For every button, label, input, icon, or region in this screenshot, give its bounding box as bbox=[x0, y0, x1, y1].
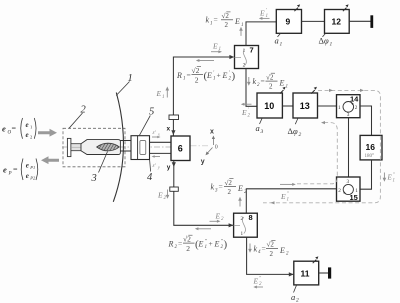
svg-text:x: x bbox=[167, 125, 171, 132]
svg-text:E: E bbox=[237, 184, 243, 193]
polarization splitter box 6 bbox=[171, 136, 190, 161]
svg-text:E: E bbox=[157, 190, 163, 199]
hatched core 3 bbox=[97, 143, 120, 151]
curved wavefront 1 bbox=[113, 93, 123, 202]
svg-text:E: E bbox=[241, 108, 247, 117]
svg-text:e: e bbox=[26, 121, 29, 129]
svg-text:1: 1 bbox=[205, 245, 208, 250]
gray up arrow under k1 bbox=[240, 29, 242, 36]
svg-text:16: 16 bbox=[366, 142, 376, 152]
svg-text:9: 9 bbox=[286, 17, 291, 27]
svg-text:2: 2 bbox=[296, 298, 299, 303]
coupler box 7 bbox=[235, 46, 259, 69]
svg-text:e: e bbox=[26, 131, 29, 139]
svg-text:e: e bbox=[26, 161, 29, 169]
gray left arrow under wire (R2 direction) bbox=[197, 228, 211, 230]
gray down arrow k2 bbox=[248, 77, 250, 84]
phase modulator box 13 bbox=[293, 93, 318, 118]
svg-text:e: e bbox=[2, 124, 6, 134]
svg-text:4: 4 bbox=[147, 172, 153, 183]
beam lines 4 to box 6 bbox=[150, 141, 172, 143]
svg-text:13: 13 bbox=[300, 101, 310, 111]
circulator box 14 bbox=[337, 95, 361, 118]
wire 9 to 12 bbox=[302, 20, 325, 22]
svg-text:√2: √2 bbox=[225, 179, 233, 187]
svg-text:P1: P1 bbox=[29, 165, 35, 170]
svg-text:1: 1 bbox=[213, 77, 216, 82]
svg-text:y: y bbox=[167, 164, 171, 171]
svg-text:1: 1 bbox=[338, 105, 341, 111]
wire 10 to 13 bbox=[282, 105, 293, 107]
wire box7 up to box9 bbox=[246, 22, 276, 46]
svg-text:180°: 180° bbox=[365, 154, 375, 159]
svg-text:=: = bbox=[219, 182, 223, 191]
svg-text:15: 15 bbox=[350, 193, 358, 202]
svg-text:E: E bbox=[156, 89, 162, 98]
wire 14 port3 to 15 port3 bbox=[348, 118, 350, 177]
svg-text:k: k bbox=[206, 16, 210, 25]
coupler box 8 bbox=[234, 213, 258, 237]
svg-text:E: E bbox=[222, 71, 228, 80]
sensing element shaft bbox=[71, 144, 81, 151]
dashed feedback loop (inner) bbox=[297, 123, 337, 184]
gray up arrow k3 bbox=[239, 199, 241, 207]
coordinate axes bbox=[201, 129, 218, 166]
wire 11 to mirror bbox=[319, 272, 328, 274]
label E''1 right edge with down arrow bbox=[383, 173, 385, 180]
svg-text:3: 3 bbox=[91, 173, 97, 184]
formula k4 bbox=[254, 241, 290, 258]
svg-text:2: 2 bbox=[299, 132, 302, 138]
circulator box 15 bbox=[337, 177, 361, 201]
formula e_o vector bbox=[2, 118, 36, 139]
coupler box 10 bbox=[257, 93, 282, 118]
svg-text:e: e bbox=[3, 165, 7, 175]
svg-text:E: E bbox=[253, 276, 259, 285]
svg-text:E: E bbox=[214, 239, 220, 248]
svg-text:10: 10 bbox=[264, 101, 274, 111]
wire 14 port2 to box16 bbox=[360, 106, 372, 135]
svg-text:3: 3 bbox=[260, 129, 264, 135]
formula e_p vector bbox=[3, 159, 38, 181]
svg-text:E: E bbox=[206, 71, 212, 80]
arrow into box7 bbox=[229, 55, 234, 59]
svg-text:=: = bbox=[12, 124, 17, 133]
svg-text:E: E bbox=[280, 192, 286, 201]
formula R2 bbox=[168, 234, 228, 252]
thick gray return arrow bbox=[41, 156, 59, 164]
svg-text:=: = bbox=[187, 70, 191, 79]
svg-text:k: k bbox=[254, 244, 258, 253]
svg-text:a: a bbox=[256, 123, 260, 133]
svg-text:2: 2 bbox=[225, 21, 229, 29]
gray left arrow E''2 bbox=[256, 286, 264, 288]
svg-text:): ) bbox=[232, 70, 236, 82]
arrow into box6 top bbox=[171, 130, 175, 135]
svg-text:√2: √2 bbox=[267, 241, 275, 249]
svg-text:φ: φ bbox=[324, 36, 329, 46]
svg-text:E: E bbox=[198, 239, 204, 248]
svg-text:8: 8 bbox=[249, 213, 253, 222]
svg-text:=: = bbox=[178, 239, 182, 248]
svg-text:φ: φ bbox=[293, 126, 298, 136]
svg-text:2: 2 bbox=[228, 188, 232, 196]
gray right arrow under E2 bbox=[210, 220, 219, 222]
svg-text:E: E bbox=[234, 17, 240, 26]
pointer to modulator 4 bbox=[150, 160, 151, 172]
svg-text:a: a bbox=[291, 292, 295, 302]
svg-text:E: E bbox=[259, 8, 265, 17]
svg-text:=: = bbox=[261, 77, 265, 86]
svg-text:=: = bbox=[214, 15, 218, 24]
svg-text:7: 7 bbox=[250, 45, 254, 54]
svg-text:1: 1 bbox=[287, 198, 290, 203]
svg-text:12: 12 bbox=[332, 17, 342, 27]
svg-text:x: x bbox=[157, 131, 160, 136]
amplitude modulator box 11 bbox=[294, 261, 319, 285]
wire box6 bottom down to box8 bbox=[174, 161, 233, 226]
gray arrow start of inner loop bbox=[280, 183, 294, 185]
svg-text:k: k bbox=[253, 77, 257, 86]
optical axis right segment bbox=[191, 145, 209, 147]
pointer to core 3 bbox=[99, 152, 108, 173]
arrow into box11 bbox=[289, 272, 294, 276]
thick gray input arrow bbox=[38, 129, 57, 137]
svg-text:1: 1 bbox=[286, 84, 289, 89]
svg-text:2: 2 bbox=[270, 250, 274, 258]
wire box16 down to 15 port1 bbox=[360, 160, 372, 189]
svg-text:+: + bbox=[217, 70, 221, 79]
svg-text:=: = bbox=[262, 244, 266, 253]
formula R1 bbox=[176, 66, 236, 84]
svg-text:6: 6 bbox=[178, 144, 183, 154]
svg-text:1: 1 bbox=[243, 48, 246, 54]
mirror M2 bbox=[328, 267, 331, 278]
svg-text:=: = bbox=[13, 165, 18, 174]
svg-text:): ) bbox=[224, 239, 228, 251]
svg-text:2: 2 bbox=[355, 105, 358, 111]
svg-text:2: 2 bbox=[195, 75, 199, 84]
svg-text:+: + bbox=[209, 239, 213, 248]
svg-text:2: 2 bbox=[338, 188, 341, 194]
gray left arrow E'2 bbox=[243, 103, 252, 105]
svg-text:√2: √2 bbox=[183, 234, 191, 243]
svg-text:2: 2 bbox=[186, 244, 190, 253]
dashed feedback loop (outer) bbox=[263, 90, 380, 202]
wire box8 down to box11 bbox=[247, 237, 294, 274]
arrow below box6 bbox=[172, 162, 176, 167]
phase modulator box 12 bbox=[325, 10, 350, 34]
svg-text:0: 0 bbox=[215, 145, 218, 151]
eps_x arrow bbox=[152, 136, 159, 138]
gray arrow left under wire (R1 direction) bbox=[198, 60, 214, 62]
svg-text:1: 1 bbox=[241, 23, 244, 28]
sensing element plunger plate bbox=[67, 138, 71, 156]
svg-text:1: 1 bbox=[393, 178, 395, 183]
svg-text:k: k bbox=[211, 183, 215, 192]
pointer to enclosure 2 bbox=[69, 113, 83, 128]
gray down arrow k4 bbox=[249, 244, 251, 251]
wire box6 top to box7 bbox=[173, 57, 233, 136]
svg-text:2: 2 bbox=[269, 83, 273, 91]
wire 13 to 14 bbox=[318, 105, 337, 107]
svg-text:E: E bbox=[215, 211, 221, 220]
eps_y arrow bbox=[154, 156, 161, 158]
svg-text:11: 11 bbox=[301, 269, 310, 279]
svg-text:E: E bbox=[279, 246, 285, 255]
svg-text:1: 1 bbox=[183, 77, 186, 82]
dashed enclosure 2 bbox=[63, 128, 125, 167]
svg-text:y: y bbox=[157, 164, 160, 169]
svg-text:R: R bbox=[168, 239, 174, 248]
svg-text:1: 1 bbox=[241, 231, 244, 237]
modulator chip on x line bbox=[169, 115, 179, 120]
svg-text:x: x bbox=[210, 129, 214, 136]
polarizer plate 5 and modulator 4 bbox=[131, 136, 150, 160]
formula k3 bbox=[211, 179, 248, 196]
sensing element body bbox=[81, 140, 120, 155]
svg-text:P2: P2 bbox=[29, 175, 36, 180]
svg-text:1: 1 bbox=[162, 95, 165, 100]
svg-text:1: 1 bbox=[330, 41, 333, 47]
amplitude modulator box 9 bbox=[276, 10, 301, 34]
pointer to plate 5 bbox=[140, 116, 151, 136]
mirror M1 bbox=[370, 15, 373, 28]
svg-text:y: y bbox=[201, 158, 205, 165]
pointer to wavefront 1 bbox=[116, 82, 129, 96]
wire 12 to mirror bbox=[349, 20, 370, 22]
modulator chip on y line bbox=[170, 187, 179, 191]
wire box7 down to box10 bbox=[246, 69, 257, 107]
svg-text:E: E bbox=[212, 41, 218, 50]
svg-text:1: 1 bbox=[210, 21, 213, 26]
arrow into box8 bbox=[229, 223, 234, 227]
svg-text:3: 3 bbox=[347, 112, 350, 118]
svg-text:a: a bbox=[275, 36, 279, 46]
svg-text:√2: √2 bbox=[222, 12, 230, 20]
svg-text:P: P bbox=[8, 172, 12, 177]
svg-text:E: E bbox=[279, 79, 285, 88]
180deg phase box 16 bbox=[360, 135, 382, 160]
formula k1 bbox=[206, 12, 244, 29]
wire 15 port2 to box8 bbox=[246, 189, 336, 213]
svg-text:√2: √2 bbox=[266, 73, 274, 81]
svg-text:R: R bbox=[176, 71, 182, 80]
svg-text:e: e bbox=[26, 172, 29, 180]
optical axis dash-dot line bbox=[62, 146, 171, 148]
gray left arrow E'1 bbox=[261, 17, 270, 19]
beam lines body to plate 5 bbox=[120, 140, 131, 142]
svg-text:1: 1 bbox=[280, 41, 283, 47]
svg-text:√2: √2 bbox=[192, 66, 200, 75]
gray arrow right under E1 bbox=[211, 51, 220, 53]
formula k2 bbox=[253, 73, 289, 90]
